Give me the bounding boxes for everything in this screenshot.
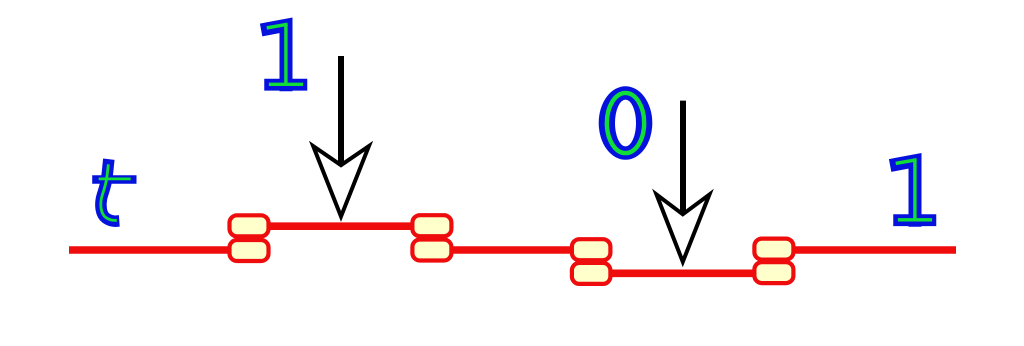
contact pair P2 top pad — [412, 215, 451, 236]
label digit 1 (right end of wire) — [897, 160, 931, 220]
contact pair P2 bottom pad — [412, 240, 451, 261]
wire lowered bit-0 segment — [591, 269, 774, 277]
wire raised bit-1 segment — [249, 222, 432, 230]
arrow A2 open head — [657, 195, 710, 262]
wire middle baseline segment — [432, 246, 591, 254]
label digit 0 (above arrow A2) — [599, 86, 653, 160]
label t (time axis, left) — [92, 159, 136, 221]
contact pair P1 bottom pad — [230, 240, 269, 261]
contact pair P4 bottom pad — [754, 262, 793, 283]
arrow A2 shaft — [680, 101, 686, 216]
contact pair P1 top pad — [230, 215, 269, 236]
arrow A1 shaft — [338, 56, 344, 167]
wire left baseline segment — [69, 246, 249, 254]
wire right baseline segment — [774, 246, 956, 254]
contact pair P3 bottom pad — [572, 263, 611, 284]
arrow A1 open head — [313, 146, 369, 216]
label digit 1 (left, above arrow A1) — [268, 25, 302, 85]
contact pair P3 top pad — [572, 239, 611, 260]
contact pair P4 top pad — [754, 239, 793, 260]
